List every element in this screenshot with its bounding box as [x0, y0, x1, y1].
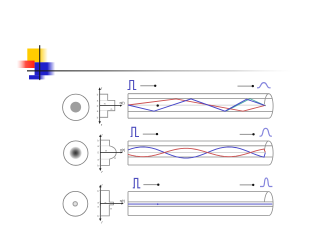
input pulse row3: [133, 178, 141, 187]
ray red sine row2: [128, 148, 265, 156]
logo blue square: [35, 62, 56, 75]
svg-text:n(r): n(r): [120, 101, 125, 105]
fiber cylinder row2 : end-face upper-left arc: [265, 141, 269, 151]
fiber cylinder row3 : body: [128, 192, 269, 216]
output pulse row1 (broadened): [257, 83, 271, 88]
output pulse row3: [260, 178, 272, 187]
svg-text:n(r): n(r): [120, 148, 125, 152]
fiber core dot row3: [73, 202, 77, 206]
fiber cylinder row1 : end-face right arc: [269, 94, 273, 119]
input pulse row1: [128, 81, 137, 90]
index profile row1 : step outline: [100, 94, 115, 117]
ray blue row1: [128, 99, 265, 111]
index profile row1 : r-axis: [99, 88, 100, 123]
ray arrowhead row3: [157, 203, 159, 205]
ray teal row1: [227, 99, 266, 111]
fiber cross-section circle row2 (cladding): [64, 141, 88, 165]
axis dot row1: [157, 104, 159, 106]
logo red square: [17, 61, 35, 68]
index profile row2 : graded outline: [100, 140, 116, 165]
output arrow row2: [240, 133, 253, 135]
fiber cylinder row1 : centerline: [128, 104, 266, 106]
index profile row2 : n(r) arrow: [100, 151, 121, 153]
fiber cylinder row2 : core boundary lines: [128, 145, 272, 147]
fiber core circle row1: [70, 102, 81, 113]
index profile row3 : step outline: [100, 191, 113, 216]
input arrow row2: [143, 133, 156, 135]
index profile row3 : r-axis: [100, 186, 101, 221]
output pulse row2: [260, 128, 272, 136]
fiber cylinder row2 : body: [128, 141, 269, 165]
index profile row2 : tick dots and labels: [100, 140, 101, 166]
fiber cylinder row3 : end-face right arc: [269, 192, 273, 216]
fiber cross-section circle row3 (cladding): [63, 191, 88, 216]
index profile row1 : n(r) arrow: [100, 105, 121, 107]
input pulse row2: [131, 127, 139, 136]
fiber cylinder row2 : centerline: [128, 152, 266, 154]
fiber cylinder row1 : core boundary lines: [128, 97, 272, 99]
fiber graded core row2: [69, 146, 82, 159]
fiber cylinder row1 : end-face upper-left arc: [265, 94, 269, 105]
logo vertical line: [39, 45, 41, 80]
index profile row1 : dashed guide lines: [100, 100, 108, 110]
fiber cylinder row3 : core boundary lines: [128, 201, 273, 203]
index profile row3 : tick dots and labels: [100, 190, 101, 216]
index profile row2 : r-axis: [100, 135, 101, 170]
fiber cross-section circle row1 (cladding): [63, 94, 89, 120]
svg-text:n(r): n(r): [120, 199, 125, 203]
fiber cylinder row3 : end-face upper-left arc: [265, 192, 269, 202]
output arrow row3: [240, 184, 253, 186]
output arrow row1: [238, 85, 252, 87]
index profile row2 : dashed guide lines: [100, 146, 109, 159]
logo yellow square: [27, 49, 48, 63]
logo blue strip lower: [29, 75, 46, 79]
index profile row1 : tick dots and labels: [99, 94, 100, 118]
ray red row1: [128, 99, 265, 111]
fiber cylinder row2 : end-face right arc: [269, 141, 273, 165]
input arrow row3: [143, 184, 157, 186]
horizontal rule line: [27, 70, 293, 71]
ray blue sine row2: [128, 147, 265, 158]
input arrow row1: [140, 85, 154, 87]
index profile row3 : n(r) arrow: [100, 203, 122, 205]
fiber cylinder row1 : body: [128, 94, 269, 119]
ray blue straight row3: [128, 203, 272, 205]
